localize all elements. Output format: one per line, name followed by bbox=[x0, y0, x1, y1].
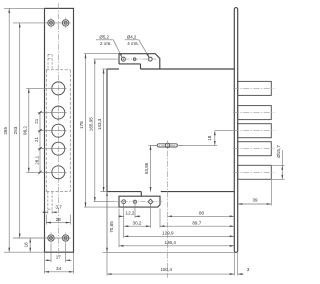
svg-text:178: 178 bbox=[79, 121, 84, 129]
svg-text:265: 265 bbox=[3, 127, 8, 135]
svg-text:3,7: 3,7 bbox=[55, 205, 62, 210]
svg-text:253: 253 bbox=[13, 126, 18, 134]
svg-text:21: 21 bbox=[34, 137, 39, 143]
svg-text:16: 16 bbox=[23, 242, 28, 248]
svg-text:2 отв.: 2 отв. bbox=[100, 41, 112, 46]
svg-text:98,2: 98,2 bbox=[22, 126, 27, 135]
svg-text:70,85: 70,85 bbox=[109, 221, 114, 233]
svg-text:12,2: 12,2 bbox=[126, 211, 135, 216]
svg-text:143,3: 143,3 bbox=[97, 118, 102, 130]
svg-text:89,7: 89,7 bbox=[192, 220, 201, 225]
svg-text:28: 28 bbox=[56, 217, 62, 222]
svg-text:165,95: 165,95 bbox=[89, 117, 94, 131]
svg-text:Ø15,7: Ø15,7 bbox=[276, 145, 281, 158]
svg-text:21: 21 bbox=[34, 118, 39, 124]
svg-text:3: 3 bbox=[247, 267, 250, 272]
svg-text:53,85: 53,85 bbox=[144, 162, 149, 174]
svg-text:136,4: 136,4 bbox=[164, 240, 176, 245]
svg-text:30,2: 30,2 bbox=[133, 220, 142, 225]
svg-text:Ø4,2: Ø4,2 bbox=[127, 34, 137, 39]
svg-text:28,1: 28,1 bbox=[35, 155, 40, 164]
svg-text:4 отв.: 4 отв. bbox=[127, 41, 139, 46]
svg-text:80: 80 bbox=[199, 211, 205, 216]
svg-text:129,9: 129,9 bbox=[162, 230, 174, 235]
svg-text:150,4: 150,4 bbox=[160, 267, 172, 272]
svg-text:34: 34 bbox=[56, 266, 62, 271]
svg-text:18: 18 bbox=[207, 135, 212, 141]
svg-text:Ø5,2: Ø5,2 bbox=[99, 34, 109, 39]
svg-text:17: 17 bbox=[56, 254, 62, 259]
svg-text:39: 39 bbox=[252, 198, 258, 203]
